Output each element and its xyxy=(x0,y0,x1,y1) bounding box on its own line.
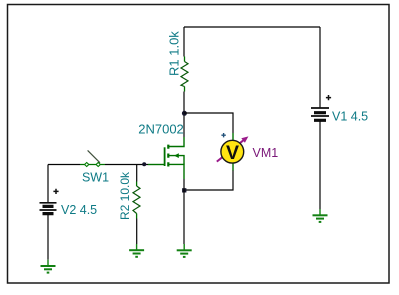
switch SW1 xyxy=(80,150,105,166)
svg-text:R2 10.0k: R2 10.0k xyxy=(118,171,132,220)
wire top horizontal from R1 to V1 xyxy=(184,26,320,28)
wire switch to gate xyxy=(105,164,148,166)
ground for V1 xyxy=(313,209,328,222)
node drain junction xyxy=(182,111,187,116)
ground for V2 xyxy=(41,260,56,273)
wire source to ground xyxy=(183,179,185,244)
wire V1 bottom vertical xyxy=(319,121,321,209)
svg-text:V: V xyxy=(226,142,239,164)
svg-text:V2 4.5: V2 4.5 xyxy=(61,203,97,217)
resistor R1 xyxy=(181,57,188,92)
transistor Q1 2N7002 xyxy=(165,137,184,179)
wire R2 bottom vertical xyxy=(136,219,138,245)
wire drain node to voltmeter top xyxy=(184,113,233,133)
ground for source xyxy=(177,244,192,257)
wire R2 top vertical xyxy=(136,165,138,182)
node source junction xyxy=(182,188,186,192)
wire gate lead green xyxy=(148,164,164,166)
svg-text:2N7002: 2N7002 xyxy=(138,122,184,137)
battery V2 xyxy=(40,189,59,214)
wire V2 top to switch xyxy=(48,164,80,166)
wire R1 bottom to drain node xyxy=(183,92,185,138)
node gate junction xyxy=(142,162,146,166)
svg-text:SW1: SW1 xyxy=(82,170,109,184)
svg-text:V1 4.5: V1 4.5 xyxy=(332,109,368,123)
voltmeter VM1 xyxy=(217,133,249,171)
wire voltmeter bottom to source node xyxy=(184,170,233,190)
resistor R2 xyxy=(133,182,140,219)
wire V2 vertical top xyxy=(47,165,49,203)
wire R1 top vertical xyxy=(183,27,185,57)
wire V2 bottom vertical xyxy=(47,214,49,260)
ground for R2 xyxy=(129,244,144,257)
wire V1 top vertical xyxy=(319,27,321,108)
battery V1 xyxy=(311,95,331,120)
svg-text:VM1: VM1 xyxy=(253,146,279,160)
svg-text:R1 1.0k: R1 1.0k xyxy=(166,31,181,76)
